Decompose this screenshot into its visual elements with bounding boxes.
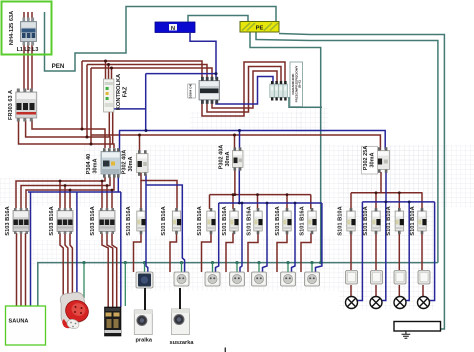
wires S103 outputs to CEE socket (60, 233, 72, 300)
junction: PE junction dots on bottom bus (4) (143, 261, 146, 264)
wire: wires FR303 outputs going right (2) (26, 120, 110, 148)
wire: wires B10A outputs to switches (4) (421, 233, 423, 270)
wire: wires kontrolka faz bottom drops (2) (112, 112, 114, 144)
junction: junction dots (13) (106, 184, 109, 187)
wire: wires P304 outputs nest to S103 row (4) (59, 181, 61, 208)
label P302 25A 30mA (362, 147, 378, 175)
wire: wire N bus from RCD P302 #2 (5) (292, 203, 296, 272)
wire: wire kontrolka faz N (3) (114, 108, 146, 110)
wires switches to lamps (350, 285, 352, 297)
breaker FR303 63A (16, 89, 37, 122)
wire: wires DS904 to surge protector (3) (202, 62, 285, 116)
wire: green PE drops to sockets and devices (7) (258, 263, 260, 272)
PE junction dots on bottom bus (82, 261, 322, 264)
wire: wires P304 outputs nest to S103 row (3) (26, 177, 114, 208)
junction: junction dots (17) (286, 193, 289, 196)
breaker S101 B16A #2 (172, 208, 181, 234)
switch #1 (346, 271, 358, 285)
wire: green PE drops to sockets and devices (9) (311, 263, 313, 272)
junction: junction dots (10) (64, 184, 67, 187)
wire: wires DS904 to surge protector (2) (207, 67, 281, 113)
wire: wires S103 outputs to sauna (2) (20, 233, 22, 306)
wire: wire long N bus (2) (119, 131, 121, 152)
wire: green PE drops to sockets and devices (6) (236, 263, 238, 272)
junction: junction dots (5) (86, 136, 89, 139)
wire: wire lighting red bus from P302 25A (4) (398, 193, 400, 209)
svg-text:S103 B16A: S103 B16A (49, 206, 55, 235)
breaker S101 B16A #5 (254, 208, 263, 234)
junction: junction dots (20) (145, 129, 148, 132)
svg-text:DS904 C40: DS904 C40 (189, 83, 193, 98)
wire surge earth (289, 97, 322, 107)
wire: wires N drops to lamps (3) (405, 202, 409, 301)
PE busbar (240, 22, 279, 33)
kontrolka faz module (104, 79, 114, 112)
wire PE feed to electrode (right) (279, 34, 444, 330)
wire PEN from main breaker box down-right (45, 7, 277, 72)
wires kontrolka faz taps (105, 61, 107, 79)
svg-text:S101 B16A: S101 B16A (126, 206, 132, 235)
svg-text:P302 25A: P302 25A (363, 146, 369, 170)
wire: wires P304 outputs nest to S103 row (8) (106, 186, 108, 209)
junction: junction dots (16) (256, 193, 259, 196)
svg-text:N: N (171, 26, 175, 32)
wires S103 outputs to cooker (102, 233, 117, 307)
wire: wire N bus from RCD P302 #2 (4) (263, 203, 268, 272)
wire: green PE drops to sockets and devices (3) (144, 263, 146, 272)
svg-text:S101 B16A: S101 B16A (300, 206, 306, 235)
wire: wire lighting red bus from P302 25A (3) (375, 193, 377, 209)
wire: wire risers to upper phase run (3) (90, 68, 92, 144)
dryer suszarka (171, 288, 189, 335)
wires NH4 to FR303 (23, 42, 25, 90)
socket #6 (281, 272, 296, 286)
svg-text:pralka: pralka (136, 338, 153, 344)
wire: wire N bus from RCD P302 #2 (6) (316, 203, 322, 272)
breaker S103 B16A #2 (57, 208, 73, 234)
svg-text:S101 B16A: S101 B16A (161, 206, 167, 235)
wire: wires upper phase run to DS904 (3) (91, 68, 212, 79)
wire PE branch mid (250, 33, 321, 264)
wire N bar to DS904 (190, 33, 216, 79)
washing machine pralka (134, 288, 152, 335)
wire: wires upper phase run to DS904 (2) (87, 65, 207, 80)
surge protector (270, 62, 303, 107)
wire: wires switches to lamps (4) (422, 285, 424, 297)
wires main incomer above NH4 breaker (23, 12, 25, 22)
wire: wires P304 outputs nest to S103 row (9) (111, 190, 113, 208)
junction: junction dots (12) (101, 180, 104, 183)
svg-text:P302 40A: P302 40A (219, 145, 225, 169)
svg-text:L1 L2 L3: L1 L2 L3 (17, 47, 39, 53)
RCD P302 #1 (137, 150, 149, 176)
junction: junction dots (19) (215, 72, 218, 75)
wire: wire long red bus to P302s (2) (139, 135, 141, 152)
wire lighting red bus from P302 25A (351, 172, 423, 193)
lamp #1 (346, 297, 358, 309)
wire: green PE drops to sockets and devices (83, 263, 85, 298)
wire: wire N bus from RCD P302 #1 (2) (146, 185, 185, 272)
wire: wires S103 outputs to sauna (3) (25, 233, 27, 306)
switch #4 (418, 271, 430, 285)
wire: wires B10A outputs to switches (2) (375, 233, 377, 270)
green PE drops to sockets and devices (84, 263, 312, 306)
junction: PE junction dots on bottom bus (9) (286, 261, 289, 264)
wires S101 outputs to sockets (134, 233, 142, 272)
wire: wires P304 outputs nest to S103 row (6) (69, 190, 71, 208)
wires P304 outputs nest to S103 row (16, 177, 105, 208)
junction: junction dots (21) (238, 129, 241, 132)
wire: wires P304 outputs nest to S103 row (7) (101, 181, 103, 208)
wire: wires kontrolka faz taps (2) (108, 65, 110, 80)
wire N bus from RCD P302 #1 (146, 174, 148, 272)
RCD P302 #2 (233, 147, 244, 170)
stray mark (225, 348, 226, 352)
wires S103 outputs to sauna (16, 233, 18, 306)
wire: wire bus from RCD P302 #2 to breakers 3-7 (4) (257, 195, 259, 209)
svg-text:30mA: 30mA (370, 152, 376, 167)
junction: junction dots (18) (234, 193, 237, 196)
wire: wires switches to lamps (3) (398, 285, 400, 297)
svg-text:S101 B10A: S101 B10A (338, 206, 344, 235)
wire: wires P304 outputs nest to S103 row (5) (64, 186, 66, 209)
wire: wires FR303 outputs going right (3) (32, 120, 105, 148)
junction: junction dots (8) (233, 134, 236, 137)
junction: junction dots (7) (138, 134, 141, 137)
wire: wires S101 outputs to sockets (4) (226, 233, 233, 272)
junction: PE junction dots on bottom bus (3) (319, 261, 322, 264)
junction: junction dots (11) (69, 189, 72, 192)
socket #3 (205, 272, 220, 286)
junction: junction dots (104, 60, 107, 63)
wire: wires S101 outputs to sockets (6) (277, 233, 287, 272)
breaker S101 B16A #6 (283, 208, 292, 234)
wire lighting N bus (362, 172, 434, 202)
svg-text:S101 B10A: S101 B10A (363, 206, 369, 235)
wires kontrolka faz bottom drops (108, 112, 110, 137)
wire: wire bus from RCD P302 #1 to breakers 1-2 (2) (140, 181, 142, 210)
svg-text:30mA: 30mA (225, 151, 231, 166)
svg-text:PE: PE (256, 26, 264, 32)
junction: junction dots (25) (294, 202, 297, 205)
junction: PE junction dots on bottom bus (10) (310, 261, 313, 264)
wire: wire risers to upper phase run (2) (86, 65, 88, 138)
wire PEN branch to N bar (188, 16, 248, 23)
wires FR303 outputs going right (19, 120, 115, 148)
wires B10A outputs to switches (350, 233, 352, 270)
switch #2 (371, 271, 383, 285)
wire: wire long N bus (3) (239, 131, 241, 150)
wire: wires NH4 to FR303 (3) (31, 42, 33, 90)
wire long red bus to P302s (91, 135, 380, 151)
wire: wire long red bus to P302s (3) (234, 135, 236, 150)
wire: wire N drops to sauna CEE cooker (2) (76, 192, 78, 300)
wire: wires N drops to lamps (4) (428, 202, 435, 301)
wire long N bus (119, 131, 385, 150)
lamp #2 (370, 297, 382, 309)
svg-text:(B+C): (B+C) (298, 80, 302, 88)
junction: junction dots (27) (398, 191, 401, 194)
svg-text:KONTROLKA: KONTROLKA (116, 74, 122, 110)
wire: wires NH4 to FR303 (2) (27, 42, 29, 90)
wire: wires B10A outputs to switches (3) (398, 233, 400, 270)
wire: wires P304 outputs nest to S103 row (2) (21, 177, 110, 208)
junction: PE junction dots on bottom bus (7) (235, 261, 238, 264)
junction: PE junction dots on bottom bus (2) (124, 261, 127, 264)
wire: green PE drops to sockets and devices (5) (212, 263, 214, 272)
junction: junction dots (2) (107, 63, 110, 66)
svg-text:30mA: 30mA (128, 156, 134, 171)
wire bus from RCD P302 #1 to breakers 1-2 (141, 173, 177, 209)
svg-text:30mA: 30mA (93, 158, 99, 173)
svg-text:SAUNA: SAUNA (9, 319, 29, 325)
breaker S101 B16A #3 (207, 208, 216, 234)
wires N drops to lamps (357, 202, 362, 301)
wire: wires S101 outputs to sockets (7) (301, 233, 311, 272)
wire: wire N bus from RCD P302 #2 (2) (216, 203, 219, 272)
svg-text:S101 B10A: S101 B10A (386, 206, 392, 235)
svg-text:S101 B16A: S101 B16A (222, 206, 228, 235)
CEE socket (57, 290, 91, 330)
wire: wire lighting red bus from P302 25A (2) (350, 193, 352, 209)
wire: green PE drops to sockets and devices (2) (124, 263, 126, 306)
svg-text:P304 40: P304 40 (86, 154, 92, 175)
junction: junction dots (14) (111, 189, 114, 192)
socket #4 (230, 272, 245, 286)
svg-text:S103 B16A: S103 B16A (90, 206, 96, 235)
wire: wires main incomer above NH4 breaker (2) (27, 12, 29, 22)
socket suszarka (174, 272, 189, 286)
wire: wire N bus from RCD P302 #2 (3) (240, 203, 242, 272)
wire N drops to sauna CEE cooker (30, 192, 32, 306)
breaker S101 B16A #1 (137, 208, 146, 234)
wire: wire bus from RCD P302 #2 to breakers 3-7 (2) (209, 195, 211, 209)
wire kontrolka faz N (146, 73, 216, 75)
breaker S101 B16A #7 (308, 208, 317, 234)
breaker S103 B16A #1 (13, 208, 29, 234)
wire PE to bottom socket PE bus (256, 33, 438, 263)
svg-text:S103 B16A: S103 B16A (5, 206, 11, 235)
junction: junction dots (23) (241, 202, 244, 205)
socket pralka (136, 272, 153, 288)
wire: wires main incomer above NH4 breaker (3) (31, 12, 33, 22)
sauna box (6, 306, 46, 345)
breaker S101 B10A #1 (347, 208, 356, 234)
wire: wire bus from RCD P302 #2 to breakers 3-7 (5) (286, 195, 288, 209)
junction: PE junction dots on bottom bus (5) (180, 261, 183, 264)
junction: PE junction dots on bottom bus (8) (257, 261, 260, 264)
wire: wires S101 outputs to sockets (2) (170, 233, 177, 272)
junction: junction dots (3) (110, 67, 113, 70)
wire: wires S101 outputs to sockets (3) (202, 233, 212, 272)
junction: PE junction dots on bottom bus (82, 261, 85, 264)
breaker S103 B16A #3 (99, 208, 115, 234)
svg-text:P302 40A: P302 40A (122, 150, 128, 174)
wire: wire N drops to sauna CEE cooker (3) (120, 192, 122, 307)
wire: wire lighting red bus from P302 25A (5) (421, 193, 423, 209)
svg-text:suszarka: suszarka (170, 340, 195, 346)
wire N bus from RCD P302 #2 (219, 168, 322, 204)
wire bottom PE bus (38, 263, 438, 307)
breaker S101 B10A #4 (418, 208, 427, 234)
junction: junction dots (26) (375, 191, 378, 194)
junction: PE junction dots on bottom bus (6) (211, 261, 214, 264)
main supply green box (2, 2, 52, 55)
wire: wire bus from RCD P302 #2 to breakers 3-7 (6) (310, 195, 312, 209)
junction: junction dots (9) (59, 180, 62, 183)
socket #5 (252, 272, 267, 286)
wire: wires kontrolka faz taps (3) (111, 68, 113, 79)
svg-text:FAZ: FAZ (123, 86, 129, 97)
wire: green PE drops to sockets and devices (8) (287, 263, 289, 272)
cooker (105, 307, 122, 336)
junction: junction dots (4) (81, 128, 84, 131)
breaker S101 B10A #2 (372, 208, 381, 234)
junction: junction dots (24) (266, 202, 269, 205)
N busbar (155, 22, 195, 33)
wire DS904 N to surge (216, 77, 273, 105)
wire: wires N drops to lamps (2) (381, 202, 386, 301)
junction: junction dots (6) (90, 143, 93, 146)
wire risers to upper phase run (81, 61, 83, 129)
svg-text:NH4-125 63A: NH4-125 63A (9, 11, 15, 45)
svg-text:FR303 63 A: FR303 63 A (8, 90, 14, 120)
lamp #4 (418, 297, 430, 309)
breaker NH4-125 63A (21, 18, 37, 46)
RCD P302 25A (377, 147, 390, 173)
lamp #3 (394, 297, 406, 309)
socket #7 (305, 272, 320, 286)
junction: junction dots (22) (238, 202, 241, 205)
wire: wires S101 outputs to sockets (5) (248, 233, 258, 272)
wires upper phase run to DS904 (82, 61, 202, 79)
breaker S101 B10A #3 (395, 208, 404, 234)
wires DS904 to surge protector (212, 71, 277, 108)
wire bus from RCD P302 #2 to breakers 3-7 (210, 168, 311, 195)
wire: wire bus from RCD P302 #2 to breakers 3-7 (3) (232, 195, 234, 209)
svg-text:PEN: PEN (52, 63, 65, 70)
svg-text:S101 B16A: S101 B16A (275, 206, 281, 235)
switch #3 (394, 271, 406, 285)
junction: junction dots (15) (232, 193, 235, 196)
RCD P304 (101, 148, 121, 178)
junction: junction dots (29) (408, 201, 411, 204)
switch-disconnector DS904 (188, 77, 220, 104)
svg-text:S101 B16A: S101 B16A (247, 206, 253, 235)
breaker S101 B16A #4 (230, 208, 239, 234)
wire N riser to left N bus (28, 174, 121, 192)
wire: wire kontrolka faz N (2) (145, 74, 147, 131)
svg-text:S101 B10A: S101 B10A (410, 206, 416, 235)
wire: wires switches to lamps (2) (375, 285, 377, 297)
wire: green PE drops to sockets and devices (4) (181, 263, 183, 272)
svg-text:S101 B16A: S101 B16A (197, 206, 203, 235)
junction: junction dots (28) (384, 201, 387, 204)
earth electrode (394, 322, 441, 339)
